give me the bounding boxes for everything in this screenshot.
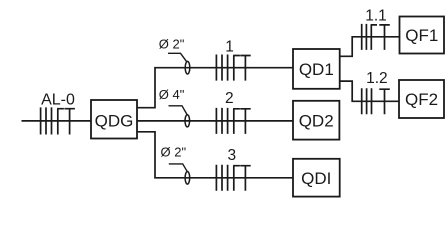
cable mark branch 1 neutral (gamma tick) [233, 56, 240, 81]
svg-text:QD1: QD1 [299, 60, 334, 79]
cable marks branch 1 (3 phase ticks) [216, 55, 227, 81]
cable mark AL-0 earth (T tick) [64, 109, 75, 135]
wire: incoming feeder AL-0 [22, 120, 92, 122]
svg-text:QDG: QDG [95, 111, 134, 130]
leader line branch 1 conduit label [168, 53, 187, 61]
cable mark branch 3 neutral (gamma tick) [233, 166, 240, 191]
svg-text:QD2: QD2 [299, 111, 334, 130]
cable marks circuit 1.1 (2 phase ticks) [362, 24, 367, 50]
cable mark circuit 1.1 neutral (gamma tick) [371, 25, 377, 50]
panel box QDG [91, 100, 137, 139]
leader line branch 2 conduit label [169, 106, 188, 115]
cable marks AL-0 feeder (3 phase ticks) [41, 107, 52, 134]
cable marks circuit 1.2 (3 phase ticks) [362, 88, 372, 114]
panel box QD2 [293, 101, 339, 140]
cable mark branch 2 earth (T tick) [240, 109, 251, 134]
svg-text:Ø 4": Ø 4" [159, 87, 185, 102]
wire: circuit 1.1 from QD1 to QF1 [340, 37, 400, 57]
cable mark branch 1 earth (T tick) [240, 56, 251, 81]
svg-text:QF2: QF2 [405, 90, 438, 109]
svg-text:1.1: 1.1 [365, 8, 387, 25]
cable mark circuit 1.1 earth (T tick) [379, 25, 390, 50]
svg-text:Ø 2": Ø 2" [159, 36, 185, 51]
cable mark circuit 1.2 earth (T tick) [379, 89, 390, 114]
svg-text:1: 1 [225, 39, 234, 56]
svg-text:Ø 2": Ø 2" [161, 145, 187, 160]
conduit ellipse branch 1 [185, 61, 190, 74]
cable mark branch 2 neutral (gamma tick) [233, 109, 240, 134]
wire: branch 1 from QDG up to QD1 level [137, 68, 293, 108]
cable mark branch 3 earth (T tick) [240, 166, 251, 191]
svg-text:AL-0: AL-0 [41, 91, 75, 108]
svg-text:1.2: 1.2 [366, 70, 388, 87]
svg-text:2: 2 [225, 90, 234, 107]
breaker box QF2 [399, 80, 444, 118]
cable marks branch 2 (3 phase ticks) [216, 108, 227, 134]
cable mark AL-0 neutral (gamma tick) [57, 109, 64, 135]
cable marks branch 3 (3 phase ticks) [216, 165, 227, 191]
svg-text:QF1: QF1 [405, 26, 438, 45]
wire: circuit 1.2 from QD1 to QF2 [340, 81, 399, 101]
svg-text:QDI: QDI [301, 169, 331, 188]
panel box QD1 [293, 49, 340, 89]
leader line branch 3 conduit label [169, 164, 188, 172]
svg-text:3: 3 [227, 147, 236, 164]
conduit ellipse branch 2 [185, 115, 190, 127]
wire: branch 3 from QDG down to QDI level [137, 132, 293, 178]
conduit ellipse branch 3 [185, 172, 190, 185]
panel box QDI [293, 159, 340, 197]
wire: branch 2 from QDG to QD2 [137, 120, 293, 122]
breaker box QF1 [400, 17, 445, 54]
